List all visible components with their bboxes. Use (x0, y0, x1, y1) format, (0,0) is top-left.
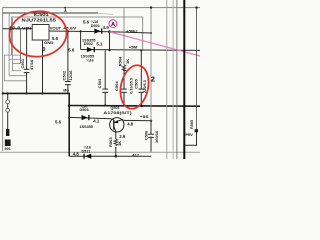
wire: bracket horiz y=59.3 (9, 58, 20, 60)
connector pin circle 1 (6, 100, 10, 104)
svg-text:501: 501 (5, 147, 11, 151)
wire: bracket horiz y=63.6 (12, 63, 20, 65)
svg-text:¼16: ¼16 (86, 59, 93, 63)
svg-text:+5M: +5M (129, 44, 138, 49)
connector body (6, 129, 9, 136)
wire: +5M / D502 wire (81, 49, 200, 52)
wire: rail x=166.8 (166, 0, 168, 159)
diode D502 (87, 47, 93, 52)
svg-text:+5S: +5S (140, 114, 149, 119)
capacitor C502 (65, 81, 71, 83)
wire: D502 anode drop (80, 31, 82, 49)
svg-text:5.1: 5.1 (96, 42, 103, 47)
svg-text:Q501: Q501 (110, 106, 119, 110)
wire: +5BU wire continues (110, 32, 152, 33)
svg-text:1K: 1K (125, 59, 130, 64)
svg-text:C505: C505 (133, 78, 138, 88)
capacitor C506 (148, 133, 154, 135)
svg-text:0: 0 (42, 47, 45, 53)
svg-text:VOUT: VOUT (50, 26, 62, 31)
wire: D503 base wire (69, 117, 111, 118)
connector CN501 drop (7, 93, 9, 129)
svg-text:D502: D502 (84, 42, 93, 46)
svg-text:5.6: 5.6 (55, 119, 62, 124)
svg-text:12/16: 12/16 (68, 70, 73, 81)
svg-text:C506: C506 (143, 130, 148, 140)
wire: C503 column (104, 50, 106, 89)
diode D503 (82, 115, 88, 120)
wire: left rail x=9 (8, 13, 10, 76)
wire: bus1 left ground bus (3, 93, 69, 156)
resistor R503 (114, 139, 118, 146)
svg-text:A17: A17 (132, 154, 139, 158)
node bus1/bus2 junction (68, 104, 71, 107)
svg-text:4.1: 4.1 (93, 119, 100, 124)
svg-text:4.8: 4.8 (127, 122, 134, 127)
svg-text:C504: C504 (114, 81, 119, 91)
wire: C505 column (140, 50, 142, 88)
wire: thick rail x=184.3 (183, 0, 185, 159)
svg-text:A1708(S/T): A1708(S/T) (103, 111, 132, 115)
svg-text:10.0: 10.0 (9, 26, 21, 31)
svg-text:100/16: 100/16 (154, 130, 159, 143)
capacitor C503 (102, 88, 108, 90)
box: sub-circuit outline top (12, 17, 143, 55)
svg-text:R503: R503 (108, 137, 113, 147)
transistor Q501 (110, 118, 124, 132)
wire: bracket horiz y=75.7 (9, 75, 26, 77)
wire: rail x=173.1 (172, 0, 174, 159)
wire: rail x=151 top (150, 8, 152, 121)
svg-text:5.6: 5.6 (52, 36, 59, 41)
node A junction (108, 30, 111, 33)
wire: stub x=20.4 (19, 29, 21, 64)
wire: VOUT wire y=31 (49, 30, 110, 33)
wire: C502 column (67, 31, 69, 81)
svg-text:D511: D511 (81, 149, 90, 153)
svg-text:R505: R505 (190, 120, 194, 129)
pink probe line (110, 32, 201, 56)
wire: node A vertical to +5M (109, 32, 111, 51)
node A marker (circled A) (109, 20, 117, 28)
svg-text:C503: C503 (97, 78, 102, 88)
wire: D511 bottom wire (69, 155, 151, 157)
wire: C501 column (26, 29, 28, 69)
red annotation ellipse 2 (117, 63, 153, 112)
wire: emitter to +5S rail (123, 119, 151, 121)
svg-text:1: 1 (63, 6, 67, 13)
resistor R504 (122, 65, 126, 72)
wire: nested bracket corner 1 (5, 55, 27, 81)
wire: rail x=196.5 (196, 8, 198, 130)
wire: rail x=176.9 (176, 0, 178, 159)
diode D511 (pointing left) (85, 154, 91, 159)
node: +5BU end (150, 32, 152, 34)
svg-text:PRV: PRV (186, 133, 194, 137)
capacitor C505 (139, 88, 145, 90)
node: diode branch tap (80, 30, 82, 32)
svg-text:1SS355: 1SS355 (80, 125, 94, 129)
wire: left border rail (2, 8, 4, 151)
wire: GND pin down (42, 40, 44, 93)
capacitor C501 (24, 68, 30, 70)
svg-text:220/6.3: 220/6.3 (143, 80, 147, 93)
svg-text:D501: D501 (91, 24, 100, 28)
resistor R505 (chip) (195, 129, 198, 132)
svg-text:MG: MG (63, 88, 69, 92)
svg-text:2: 2 (151, 75, 155, 84)
wire: bracket horiz y=70.7 (12, 70, 21, 72)
svg-text:2.9: 2.9 (119, 134, 126, 139)
svg-text:47/16: 47/16 (29, 59, 34, 70)
svg-text:R504: R504 (118, 56, 123, 66)
connector pin circle 2 (6, 108, 10, 112)
svg-text:VIN: VIN (22, 26, 32, 31)
svg-text:+5BU: +5BU (126, 28, 138, 33)
svg-text:C501: C501 (20, 58, 25, 68)
diode D501 (94, 29, 100, 34)
node: C502 tap (67, 30, 69, 32)
svg-text:1K: 1K (117, 141, 122, 146)
wire: collector / R503 column (115, 131, 117, 139)
wire: left rail x=12.4 (box left) (11, 18, 13, 71)
wire: bus2 lower ground bus (69, 105, 200, 108)
capacitor C504 (121, 88, 127, 90)
svg-text:D503: D503 (80, 108, 89, 112)
svg-text:5.6: 5.6 (83, 20, 90, 25)
red annotation ellipse 1 (7, 9, 69, 60)
wire: top grey rail (3, 7, 201, 9)
svg-text:5.6: 5.6 (68, 48, 75, 53)
op-amp U1: IC501 regulator box (32, 25, 49, 41)
wire: upper horizontal wire y=13 (3, 12, 98, 14)
wire: bottom grey rail (0, 151, 200, 153)
wire: VIN input wire (3, 28, 33, 30)
svg-text:4.8: 4.8 (73, 151, 80, 156)
svg-text:C502: C502 (62, 70, 67, 80)
wire: C506 column (150, 121, 152, 134)
wire: R504/C504 column (123, 8, 125, 65)
svg-text:4.9: 4.9 (103, 25, 110, 30)
svg-text:NJU7201L55: NJU7201L55 (22, 18, 57, 23)
